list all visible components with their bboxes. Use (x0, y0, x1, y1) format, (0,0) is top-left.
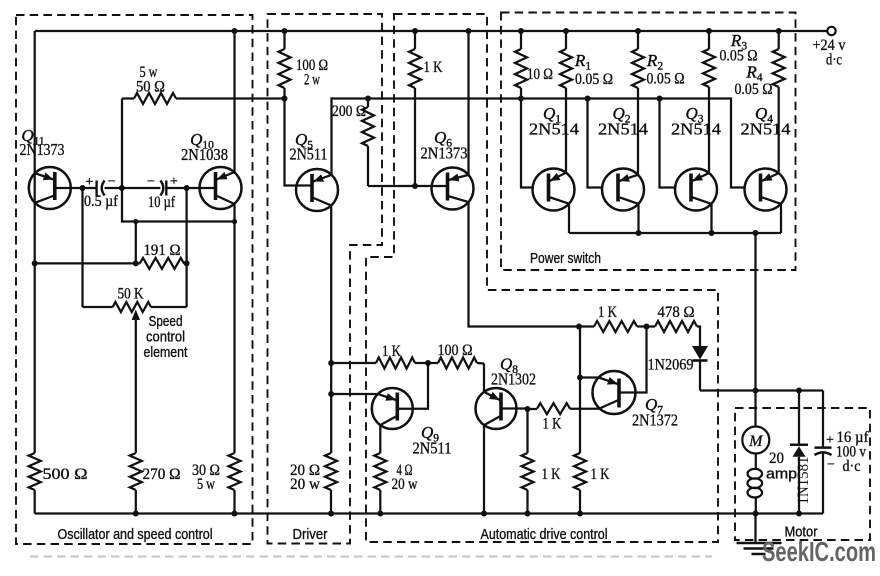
capacitor C2 10uf (147, 175, 178, 212)
wire 200ohm to Q6 base (368, 183, 448, 189)
svg-text:50 K: 50 K (118, 286, 144, 303)
label Driver (293, 527, 328, 543)
transistor Q6 (432, 168, 474, 210)
svg-text:2N511: 2N511 (290, 145, 328, 164)
wire emitter-bus to motor drop (754, 233, 756, 391)
capacitor C3 16uf (815, 391, 870, 514)
svg-text:+: + (85, 175, 93, 190)
section box: Motor (735, 408, 870, 540)
wire C2 to Q10 base (166, 185, 215, 191)
svg-text:1N1581: 1N1581 (795, 457, 812, 505)
wire top +24v bus (35, 28, 828, 34)
label Q6 (421, 128, 468, 163)
wire Q5 base (285, 99, 313, 186)
resistor 478ohm (655, 304, 700, 346)
wire Q5 collector (332, 99, 369, 175)
wire emitter bus (569, 204, 781, 236)
svg-text:0.05 Ω: 0.05 Ω (575, 71, 613, 88)
svg-text:control: control (146, 330, 185, 346)
wire motor bus (700, 388, 823, 394)
transistor Q3 (675, 169, 717, 211)
svg-text:−: − (147, 175, 155, 190)
svg-text:1 K: 1 K (542, 466, 561, 483)
svg-text:+: + (826, 433, 834, 448)
wire bottom bus (35, 511, 823, 517)
svg-text:1N2069: 1N2069 (648, 357, 694, 374)
label Oscillator and speed control (58, 527, 213, 543)
svg-text:10 Ω: 10 Ω (527, 66, 553, 83)
svg-text:Automatic drive control: Automatic drive control (481, 527, 608, 543)
wire Q5 emitter (328, 206, 334, 454)
wire Q8 arrow riser (483, 364, 485, 392)
transistor Q11 (29, 167, 71, 209)
wire Q3 collector (708, 87, 710, 173)
svg-text:element: element (144, 345, 188, 361)
transistor Q5 (296, 169, 338, 211)
wire Q6 collector (467, 31, 469, 175)
section box: Oscillator and speed control (16, 15, 253, 544)
wire Q9 base (397, 363, 428, 409)
inductor 20 amp (748, 450, 798, 514)
transistor Q10 (200, 167, 242, 209)
resistor 1K Q8-Q7 (525, 403, 571, 432)
svg-text:amp: amp (766, 467, 797, 483)
resistor R4 0.05ohm (735, 31, 785, 98)
wire Q9 arrow lead (331, 393, 378, 395)
resistor 500ohm (29, 453, 88, 514)
resistor 1K middle (331, 343, 431, 369)
svg-text:1 K: 1 K (598, 304, 617, 321)
wire 191 left riser (135, 222, 137, 264)
transistor Q7 (593, 371, 636, 414)
wire ground drop (754, 514, 756, 544)
transistor Q1 (533, 169, 575, 211)
resistor 20ohm 20w (290, 453, 337, 514)
svg-text:d·c: d·c (826, 52, 842, 69)
label Q1 (529, 104, 579, 139)
resistor 1K top-middle (409, 31, 443, 186)
svg-text:2N514: 2N514 (671, 120, 721, 139)
wire Q4 collector (778, 87, 780, 173)
svg-text:1 K: 1 K (382, 343, 401, 360)
wire left bus (32, 31, 38, 453)
svg-text:500 Ω: 500 Ω (43, 466, 88, 483)
label Q8 (491, 355, 536, 389)
resistor 270ohm (130, 453, 181, 514)
svg-text:20: 20 (769, 450, 784, 467)
svg-text:0.05 Ω: 0.05 Ω (735, 81, 773, 98)
svg-text:1 K: 1 K (543, 416, 562, 433)
svg-text:1 K: 1 K (424, 59, 443, 76)
svg-text:20 w: 20 w (290, 476, 320, 493)
resistor 1K vert2 (574, 453, 610, 514)
resistor 100ohm 2w (279, 31, 329, 102)
svg-text:200 Ω: 200 Ω (332, 103, 366, 120)
label Q11 (20, 126, 65, 159)
resistor 200ohm (332, 96, 374, 187)
wire Q8 emitter drop (483, 425, 485, 513)
wire C1 to C2 (105, 185, 161, 191)
wire Q1 base drop (521, 99, 533, 188)
label Q9 (413, 423, 452, 458)
svg-text:0.5 µf: 0.5 µf (84, 193, 119, 210)
svg-text:M: M (748, 433, 764, 450)
wire 50ohm left drop (121, 99, 123, 189)
svg-text:0.05 Ω: 0.05 Ω (647, 71, 685, 88)
label Q2 (598, 104, 648, 139)
resistor 10ohm (515, 31, 553, 102)
capacitor C1 0.5uf (84, 175, 119, 211)
wire Q10 collector (233, 31, 235, 172)
svg-text:2N1373: 2N1373 (20, 140, 65, 159)
label Q5 (290, 130, 328, 164)
svg-text:270 Ω: 270 Ω (143, 466, 181, 483)
wire Q2 collector (637, 88, 639, 175)
svg-text:Driver: Driver (293, 527, 328, 543)
label Q4 (741, 104, 791, 139)
label Q7 (632, 395, 678, 430)
wire Q3 base drop (660, 99, 676, 188)
wire Q9 emitter drop (379, 425, 381, 453)
pot wiper arrow (132, 310, 140, 454)
wire base bus (521, 96, 745, 188)
wire 191 right riser (185, 188, 187, 307)
wire Q7 base (620, 327, 647, 393)
svg-text:50 Ω: 50 Ω (136, 79, 165, 96)
svg-text:−: − (827, 458, 835, 473)
svg-text:2N514: 2N514 (598, 120, 648, 139)
svg-text:10 µf: 10 µf (148, 194, 176, 211)
wire Q7 lower lead to 1K (570, 408, 600, 410)
section box: Driver (268, 14, 383, 544)
svg-text:2 w: 2 w (304, 72, 320, 89)
svg-text:20 w: 20 w (392, 476, 418, 493)
transistor Q9 (372, 388, 413, 429)
label Power switch (530, 251, 601, 267)
resistor R2 0.05ohm (632, 31, 685, 88)
wire motor to coil (755, 454, 757, 471)
wire Q2 base drop (588, 99, 603, 188)
watermark SeekIC.com (762, 536, 876, 567)
label Motor (785, 525, 818, 541)
transistor Q8 (476, 388, 517, 429)
wire Q11 base (55, 187, 96, 189)
scan artifact dashes (30, 555, 712, 557)
label Q10 (181, 130, 228, 164)
wire motor feed (754, 391, 756, 427)
svg-text:2N1038: 2N1038 (181, 145, 228, 164)
svg-text:Power switch: Power switch (530, 251, 601, 267)
wire x580 riser (579, 327, 581, 454)
svg-text:478 Ω: 478 Ω (658, 304, 695, 321)
svg-text:2N1372: 2N1372 (632, 411, 678, 430)
svg-text:100 Ω: 100 Ω (438, 342, 473, 359)
diode D2 1N1581 (790, 391, 812, 514)
svg-text:1 K: 1 K (591, 466, 610, 483)
svg-text:d·c: d·c (843, 458, 861, 475)
resistor R3 0.05ohm (703, 31, 758, 87)
resistor 50ohm 5w (122, 64, 285, 104)
transistor Q2 (602, 169, 644, 211)
svg-text:2N514: 2N514 (529, 120, 579, 139)
svg-text:2N511: 2N511 (413, 439, 452, 458)
svg-text:2N1302: 2N1302 (491, 370, 536, 389)
svg-text:Oscillator and speed control: Oscillator and speed control (58, 527, 213, 543)
resistor 4ohm 20w (374, 453, 418, 514)
wire Q1 collector (565, 88, 567, 173)
resistor 100ohm middle (428, 342, 484, 369)
section box: Power switch (501, 13, 796, 271)
ground (737, 543, 782, 554)
resistor 1K top-right (576, 304, 655, 332)
svg-text:5 w: 5 w (197, 476, 215, 493)
resistor 191ohm (35, 242, 190, 269)
wire pot-left drop (80, 185, 86, 307)
wire 200ohm top to 10ohm (368, 97, 521, 99)
wire Q8 base (501, 407, 528, 409)
label speed control element (144, 314, 188, 361)
transistor Q4 (745, 169, 787, 211)
terminal +24 v d-c (813, 27, 846, 69)
resistor R1 0.05ohm (560, 31, 613, 88)
diode D1 1N2069 (648, 346, 709, 391)
section box: Automatic drive control (366, 14, 718, 542)
motor M (742, 427, 769, 454)
wire Q7 arrow lead (577, 375, 599, 381)
svg-text:2N514: 2N514 (741, 120, 791, 139)
svg-text:191 Ω: 191 Ω (144, 242, 181, 259)
label Q3 (671, 104, 721, 139)
wire Q6 emitter (469, 202, 580, 326)
resistor 30ohm 5w (192, 222, 241, 514)
svg-text:SeekIC.com: SeekIC.com (762, 536, 876, 567)
svg-text:2N1373: 2N1373 (421, 144, 468, 163)
svg-text:Speed: Speed (149, 314, 183, 330)
potentiometer 50K (83, 286, 187, 313)
resistor 1K vert1 (522, 409, 561, 514)
label Automatic drive control (481, 527, 608, 543)
wire Q10 emitter row (122, 188, 237, 224)
